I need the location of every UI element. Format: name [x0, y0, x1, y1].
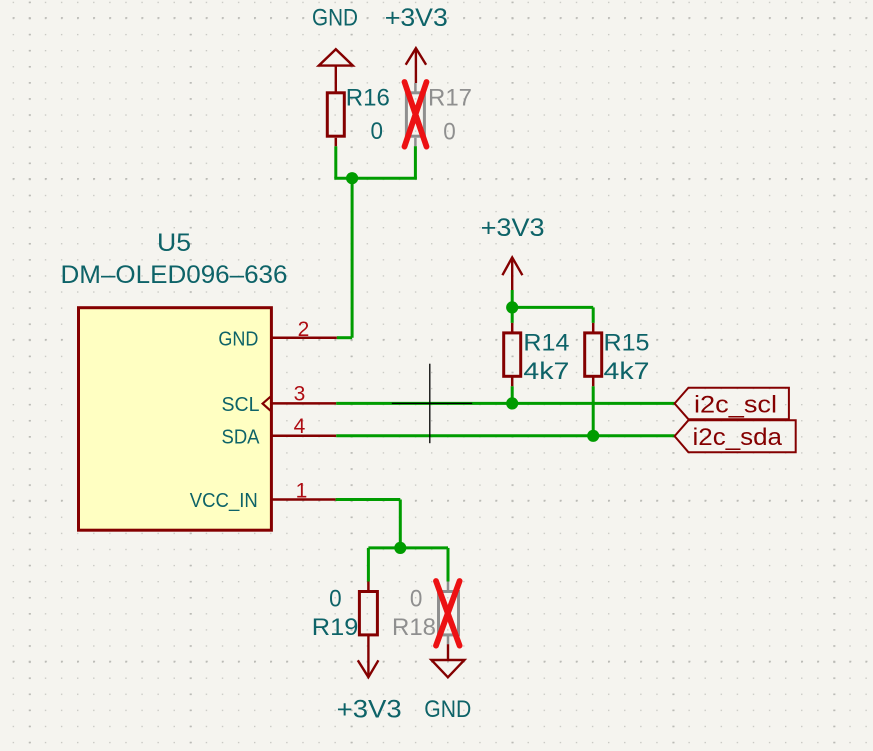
- wire junction to pin 2 (vertical): [351, 178, 354, 338]
- power symbol +3V3 (top): [406, 48, 426, 83]
- svg-text:R18: R18: [392, 614, 436, 641]
- wire R17 bottom down: [414, 146, 417, 178]
- svg-text:+3V3: +3V3: [481, 214, 545, 242]
- wire R14 bottom to scl net: [511, 386, 514, 403]
- resistor R19: [359, 582, 377, 635]
- wire down to R19: [367, 548, 370, 582]
- svg-text:U5: U5: [157, 229, 191, 257]
- svg-text:+3V3: +3V3: [337, 696, 402, 724]
- svg-text:4k7: 4k7: [523, 358, 569, 385]
- wire net i2c_scl: [336, 402, 674, 405]
- wire down to R15: [592, 307, 595, 323]
- svg-text:SCL: SCL: [222, 394, 260, 416]
- wire pin 1 to corner: [336, 498, 401, 501]
- component U5 body: [79, 308, 272, 531]
- wire R15 bottom to sda net: [592, 386, 595, 436]
- wire +3V3 down to R14: [511, 290, 514, 323]
- svg-text:GND: GND: [424, 696, 471, 723]
- svg-text:DM–OLED096–636: DM–OLED096–636: [61, 261, 288, 289]
- resistor R18 (DNP, greyed): [439, 582, 459, 635]
- svg-text:VCC_IN: VCC_IN: [190, 490, 258, 512]
- svg-text:4: 4: [294, 415, 306, 438]
- svg-text:R19: R19: [312, 614, 359, 641]
- junction (sda/R15): [587, 430, 599, 442]
- wire down to R18: [447, 548, 450, 582]
- junction (VCC_IN net): [394, 542, 406, 554]
- svg-text:GND: GND: [218, 329, 258, 351]
- power symbol +3V3 (middle): [502, 257, 522, 290]
- svg-text:R14: R14: [523, 330, 569, 357]
- svg-text:R17: R17: [428, 85, 472, 112]
- power symbol +3V3 (bottom, inverted): [358, 636, 379, 677]
- resistor R14: [504, 323, 521, 386]
- pin 3 clock marker: [263, 396, 271, 411]
- svg-text:0: 0: [410, 586, 423, 613]
- svg-text:1: 1: [296, 480, 308, 503]
- svg-text:0: 0: [329, 586, 342, 613]
- wire horizontal R16 to R17: [334, 177, 417, 180]
- resistor R16: [327, 93, 344, 147]
- wire net i2c_sda: [336, 434, 674, 437]
- DNP cross R18: [436, 581, 460, 646]
- cursor crosshair: [392, 364, 472, 444]
- svg-text:SDA: SDA: [222, 426, 261, 448]
- power symbol GND (top): [319, 49, 353, 91]
- wire junction to R15 (horizontal): [512, 306, 593, 309]
- svg-text:0: 0: [443, 119, 456, 146]
- svg-text:GND: GND: [312, 5, 358, 32]
- svg-text:3: 3: [294, 383, 306, 406]
- resistor R17 (DNP, greyed): [406, 83, 424, 146]
- svg-text:+3V3: +3V3: [385, 4, 448, 32]
- pin 4 SDA: [271, 435, 336, 438]
- DNP cross R17: [405, 82, 427, 147]
- pin 3 SCL: [271, 402, 336, 405]
- junction (R16/R17 net): [346, 172, 358, 184]
- pin 1 VCC_IN: [271, 498, 335, 501]
- wire horizontal R19/R18: [368, 546, 448, 549]
- svg-text:i2c_scl: i2c_scl: [694, 391, 777, 418]
- pin 2 GND: [271, 336, 336, 339]
- hierarchical label i2c_scl: [675, 388, 789, 420]
- svg-text:2: 2: [298, 318, 310, 341]
- svg-text:R15: R15: [604, 330, 650, 357]
- hierarchical label i2c_sda: [675, 420, 796, 452]
- svg-text:i2c_sda: i2c_sda: [693, 424, 783, 451]
- resistor R15: [585, 323, 602, 386]
- wire corner down to junction: [399, 500, 402, 548]
- svg-text:4k7: 4k7: [604, 358, 650, 385]
- junction (+3V3 net, R14/R15): [506, 301, 518, 313]
- power symbol GND (bottom): [431, 636, 464, 677]
- wire to pin 2 (horizontal): [337, 336, 352, 339]
- svg-text:0: 0: [371, 118, 384, 145]
- svg-text:R16: R16: [346, 85, 390, 112]
- wire R16 bottom down: [334, 146, 337, 178]
- junction (scl/R14): [506, 397, 518, 409]
